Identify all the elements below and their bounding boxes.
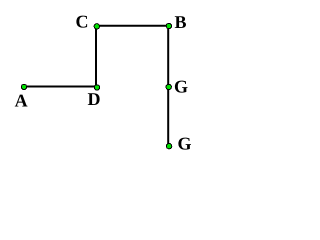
wire edge G-G [167,87,169,146]
wire edge B-G [167,26,169,87]
node G bottom [166,143,171,148]
svg-text:C: C [76,12,89,32]
svg-text:A: A [15,91,28,111]
svg-text:B: B [175,12,187,32]
node A [21,84,26,89]
wire edge C-D [95,26,97,87]
svg-text:G: G [178,133,192,153]
svg-text:D: D [88,89,101,109]
node D [94,85,99,90]
wire edge C-B [96,25,168,27]
wire edge A-D [24,86,97,88]
node C [94,24,99,29]
node G middle [166,84,171,89]
node B [166,23,171,28]
svg-text:G: G [174,77,188,97]
